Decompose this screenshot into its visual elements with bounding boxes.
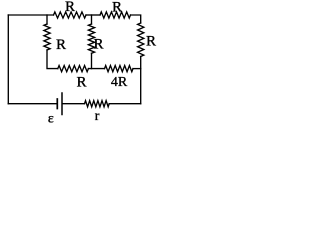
svg-text:R: R (112, 0, 122, 15)
wire right side lower (140, 57, 142, 104)
resistor r zigzag (85, 101, 110, 107)
wire top middle segment (86, 14, 100, 16)
node junction top branch1 (46, 15, 48, 24)
svg-text:R: R (76, 74, 86, 90)
wire battery to r (63, 103, 85, 105)
wire middle horizontal left of R (88, 68, 104, 70)
battery cell positive long bar (61, 93, 63, 115)
battery cell negative short bar (56, 99, 58, 109)
svg-text:R: R (56, 37, 66, 53)
resistor R top-right zigzag (100, 12, 131, 18)
resistor R middle horizontal zigzag (58, 66, 89, 72)
svg-text:4R: 4R (111, 75, 128, 90)
wire top left segment (8, 14, 53, 16)
wire bottom right segment (109, 103, 141, 105)
resistor R vertical branch1 (44, 24, 50, 50)
resistor R top-left zigzag (54, 12, 87, 18)
node junction top branch2 (91, 15, 93, 24)
svg-text:ε: ε (48, 112, 54, 126)
resistor R vertical branch3 right (138, 23, 144, 57)
svg-text:R: R (65, 0, 75, 15)
wire branch1 lower (47, 50, 58, 69)
wire middle to right wall (133, 68, 141, 70)
wire left side (7, 15, 9, 104)
wire branch2 lower (91, 53, 93, 68)
svg-text:R: R (146, 34, 156, 50)
svg-text:R: R (93, 36, 103, 52)
svg-text:r: r (95, 109, 100, 124)
resistor R vertical branch2 (88, 24, 94, 53)
resistor 4R zigzag (105, 66, 134, 72)
wire top right corner segment (131, 15, 141, 23)
wire bottom left segment (8, 103, 56, 105)
